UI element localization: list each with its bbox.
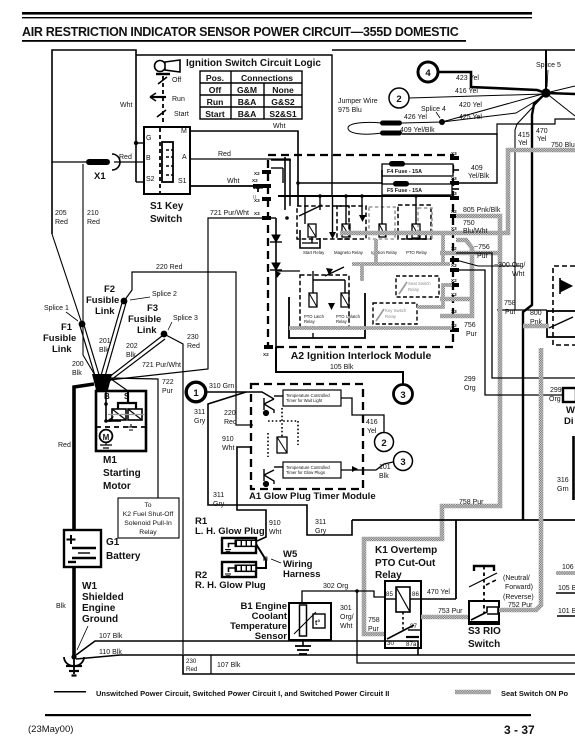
relay ignition relay xyxy=(369,207,398,255)
svg-text:Relay: Relay xyxy=(408,287,420,292)
svg-text:G&M: G&M xyxy=(237,85,257,95)
wire M Wht xyxy=(190,131,298,205)
wire Wht left frame (205 Red riser + top run) xyxy=(52,50,136,234)
svg-text:W: W xyxy=(566,405,575,416)
svg-text:Red: Red xyxy=(58,442,71,449)
wire 202 Blk (F3 link) xyxy=(104,336,165,383)
junction dots A2 xyxy=(285,181,418,220)
svg-text:3 - 37: 3 - 37 xyxy=(504,723,535,737)
timer glow plugs box xyxy=(283,462,341,478)
svg-text:Start: Start xyxy=(205,109,225,119)
svg-text:Connections: Connections xyxy=(241,73,293,83)
svg-text:Yel: Yel xyxy=(367,428,377,435)
svg-text:Key Switch: Key Switch xyxy=(385,308,407,313)
M1 solenoid coils xyxy=(106,409,145,430)
wire 200 Blk (F1 link) xyxy=(80,325,100,379)
note box to K2 relay xyxy=(118,498,179,538)
svg-text:311: 311 xyxy=(315,519,326,526)
circle 2 callout xyxy=(389,88,409,108)
svg-text:910: 910 xyxy=(269,520,281,527)
wire inner left stubs xyxy=(271,159,291,161)
svg-text:(Neutral/: (Neutral/ xyxy=(503,575,530,582)
svg-text:750: 750 xyxy=(463,220,475,227)
svg-text:Relay: Relay xyxy=(304,319,316,324)
svg-text:Pur: Pur xyxy=(466,331,478,338)
gray wire stub y299 xyxy=(440,297,472,302)
svg-text:409: 409 xyxy=(471,165,483,172)
callout circle 1 xyxy=(186,382,206,402)
svg-text:PTO Relay: PTO Relay xyxy=(406,250,428,255)
S1 inner contact carrier xyxy=(160,128,173,193)
svg-text:G&S2: G&S2 xyxy=(271,97,295,107)
svg-text:205: 205 xyxy=(55,210,67,217)
svg-text:Starting: Starting xyxy=(103,468,141,479)
svg-text:Solenoid Pull-In: Solenoid Pull-In xyxy=(124,520,172,527)
glow plug R2 xyxy=(222,562,256,577)
M1 separator dashed xyxy=(96,426,146,428)
svg-text:230: 230 xyxy=(186,658,197,665)
svg-text:425 Yel: 425 Yel xyxy=(459,114,482,121)
connector X1 xyxy=(52,154,144,182)
svg-text:2: 2 xyxy=(396,94,401,105)
B1 t box xyxy=(313,614,325,628)
svg-text:Unswitched Power Circuit, Swit: Unswitched Power Circuit, Switched Power… xyxy=(96,689,389,698)
relay PTO latch/unlatch box xyxy=(300,267,361,327)
svg-text:87a: 87a xyxy=(406,641,417,648)
svg-text:Blk: Blk xyxy=(56,603,66,610)
wire 301 Org/Wht xyxy=(357,591,575,663)
module A1 boundary xyxy=(251,384,363,489)
svg-text:Seat Switch: Seat Switch xyxy=(408,281,431,286)
svg-text:Splice 2: Splice 2 xyxy=(152,291,177,298)
svg-text:Relay: Relay xyxy=(139,529,157,536)
svg-text:Link: Link xyxy=(137,325,157,336)
wire 205 Red diagonal xyxy=(52,234,82,324)
module A2 boundary xyxy=(268,155,453,347)
relay key switch relay xyxy=(373,303,417,324)
jumper wire 975 Blu xyxy=(338,98,402,136)
gray wire 752 Pur xyxy=(499,348,541,610)
svg-text:Off: Off xyxy=(209,85,222,95)
svg-text:Engine: Engine xyxy=(82,603,116,614)
wire splice 5 riser xyxy=(545,50,547,90)
svg-text:X3: X3 xyxy=(254,198,260,203)
svg-text:Red: Red xyxy=(55,219,68,226)
svg-text:To: To xyxy=(144,502,151,509)
connector pin X2 at S1 wire xyxy=(252,178,263,199)
svg-text:Pur: Pur xyxy=(368,626,380,633)
battery cable junction blob xyxy=(92,374,112,390)
switch deck box 800 Pnk xyxy=(547,311,575,337)
wire 416 Yel to circle 2 xyxy=(341,398,384,432)
wire 426 Yel xyxy=(402,122,442,123)
node G junction xyxy=(134,141,138,145)
svg-text:K2 Fuel Shut-Off: K2 Fuel Shut-Off xyxy=(123,511,174,518)
svg-text:301: 301 xyxy=(340,605,352,612)
svg-text:200: 200 xyxy=(72,361,84,368)
wire inner 276 bus xyxy=(275,218,277,347)
ground W1 symbol xyxy=(71,654,76,659)
svg-text:230: 230 xyxy=(187,334,199,341)
svg-text:101 B: 101 B xyxy=(558,608,575,615)
gray wire 756 Pur xyxy=(440,240,472,316)
svg-text:Magneto Relay: Magneto Relay xyxy=(334,250,364,255)
svg-text:Switch: Switch xyxy=(150,214,182,225)
svg-text:416 Yel: 416 Yel xyxy=(455,88,478,95)
wire A Red xyxy=(190,159,290,205)
svg-text:Splice 4: Splice 4 xyxy=(421,106,446,113)
wire 470 Yel to K1 xyxy=(421,598,456,600)
svg-text:S1: S1 xyxy=(178,178,187,185)
wire R1-R2 link xyxy=(256,544,266,568)
svg-text:Splice 1: Splice 1 xyxy=(44,305,69,312)
svg-text:Di: Di xyxy=(564,416,574,427)
wire 416 Yel xyxy=(409,94,544,98)
wire 423 Yel xyxy=(438,72,546,93)
M1 motor symbol xyxy=(100,430,113,443)
svg-text:t°: t° xyxy=(315,619,320,627)
svg-text:Blk: Blk xyxy=(99,347,109,354)
svg-text:Org/: Org/ xyxy=(340,614,354,621)
svg-text:Forward): Forward) xyxy=(505,584,533,591)
wire 409 Yel/Blk xyxy=(402,134,497,183)
latch relay solid enclosure xyxy=(289,293,365,338)
gray wire internal ignition riser xyxy=(374,239,378,264)
svg-text:415: 415 xyxy=(518,132,530,139)
svg-text:M: M xyxy=(103,433,110,442)
svg-text:X3: X3 xyxy=(254,211,260,216)
svg-text:X2: X2 xyxy=(254,185,260,190)
gray wire internal key relay link xyxy=(417,285,452,307)
svg-text:M1: M1 xyxy=(103,455,117,466)
svg-text:311: 311 xyxy=(213,492,224,499)
svg-text:M: M xyxy=(181,128,187,135)
svg-text:Ground: Ground xyxy=(82,614,118,625)
svg-text:X3: X3 xyxy=(451,151,457,156)
relay start relay xyxy=(297,205,349,255)
svg-text:X3: X3 xyxy=(451,309,457,314)
svg-text:Switch: Switch xyxy=(468,639,500,650)
svg-text:X3: X3 xyxy=(451,226,457,231)
node blob at 278,273 xyxy=(275,271,281,278)
svg-text:Red: Red xyxy=(119,154,132,161)
seat switch module right edge (dashed) xyxy=(553,266,575,345)
switch S1 key switch box xyxy=(144,127,190,194)
svg-text:Sensor: Sensor xyxy=(255,631,288,642)
A2 right edge pins xyxy=(450,151,459,332)
svg-text:105 B: 105 B xyxy=(558,585,575,592)
svg-text:201: 201 xyxy=(99,338,111,345)
svg-text:299: 299 xyxy=(464,376,476,383)
svg-text:X1: X1 xyxy=(94,171,106,182)
footer rule xyxy=(45,714,531,716)
svg-text:220 Red: 220 Red xyxy=(156,264,183,271)
svg-text:Red: Red xyxy=(224,419,237,426)
svg-text:Run: Run xyxy=(207,97,224,107)
svg-text:Splice 5: Splice 5 xyxy=(536,62,561,69)
transistor Q2 xyxy=(263,467,283,487)
svg-text:L. H. Glow Plug: L. H. Glow Plug xyxy=(195,526,265,537)
svg-text:Blk: Blk xyxy=(72,370,82,377)
svg-text:B: B xyxy=(146,155,151,162)
svg-text:Wht: Wht xyxy=(227,178,240,185)
S3 actuator bracket xyxy=(469,566,497,614)
svg-text:AIR RESTRICTION INDICATOR SENS: AIR RESTRICTION INDICATOR SENSOR POWER C… xyxy=(22,25,459,39)
diode D2 in A2 xyxy=(270,263,282,270)
wire 470 Yel horizontal xyxy=(352,519,575,521)
svg-text:S2: S2 xyxy=(146,176,155,183)
gray wire internal y264 xyxy=(352,262,450,266)
svg-text:Blk: Blk xyxy=(379,473,389,480)
svg-text:Off: Off xyxy=(172,77,181,84)
svg-text:Yel: Yel xyxy=(518,140,528,147)
svg-text:202: 202 xyxy=(126,343,138,350)
svg-text:None: None xyxy=(272,85,294,95)
svg-text:Relay: Relay xyxy=(336,319,348,324)
svg-text:470: 470 xyxy=(536,128,548,135)
svg-text:(Reverse): (Reverse) xyxy=(503,594,534,601)
wire 220 Red xyxy=(124,272,253,425)
svg-text:756: 756 xyxy=(464,322,476,329)
wire 210 Red xyxy=(83,164,96,377)
svg-text:420 Yel: 420 Yel xyxy=(459,102,482,109)
svg-text:S2&S1: S2&S1 xyxy=(269,109,296,119)
wire 311 Gry trunk xyxy=(208,392,352,535)
svg-text:X2: X2 xyxy=(451,263,457,268)
svg-text:Wht: Wht xyxy=(120,102,133,109)
svg-text:106: 106 xyxy=(562,564,574,571)
svg-text:105 Blk: 105 Blk xyxy=(330,364,354,371)
svg-text:299: 299 xyxy=(550,387,562,394)
key switch positions Off/Run/Start xyxy=(150,74,170,122)
splice 5 xyxy=(541,88,550,97)
svg-text:800: 800 xyxy=(530,310,542,317)
wires relay feeds xyxy=(290,131,416,243)
gray wire 753 Pur xyxy=(421,615,469,620)
svg-text:758: 758 xyxy=(504,300,516,307)
svg-text:Battery: Battery xyxy=(106,551,141,562)
svg-text:X2: X2 xyxy=(263,352,269,357)
fuse F4 xyxy=(382,161,453,176)
svg-text:G1: G1 xyxy=(106,537,120,548)
wires latch feeds xyxy=(313,271,345,338)
splice 5 fan right xyxy=(546,86,575,93)
svg-text:210: 210 xyxy=(87,210,99,217)
svg-text:3: 3 xyxy=(400,457,405,468)
svg-text:721 Pur/Wht: 721 Pur/Wht xyxy=(142,362,181,369)
svg-text:X2: X2 xyxy=(254,171,260,176)
pin G wire xyxy=(136,142,144,144)
svg-text:▤: ▤ xyxy=(263,556,268,562)
svg-text:~756: ~756 xyxy=(474,244,490,251)
wire 722 Pur xyxy=(110,378,158,498)
svg-text:R. H. Glow Plug: R. H. Glow Plug xyxy=(195,580,266,591)
svg-text:3: 3 xyxy=(400,390,405,401)
relay seat switch relay xyxy=(396,276,439,297)
svg-text:Gry: Gry xyxy=(213,501,225,508)
svg-text:Run: Run xyxy=(172,96,185,103)
svg-text:X3: X3 xyxy=(451,176,457,181)
B1 thermistor xyxy=(300,605,307,636)
svg-text:B: B xyxy=(104,392,110,401)
svg-text:PTO Cut-Out: PTO Cut-Out xyxy=(375,558,436,569)
wire 299 Org second xyxy=(456,270,563,395)
sensor B1 box xyxy=(289,603,331,640)
svg-text:Start: Start xyxy=(174,111,189,118)
callout circle 3 (A2 ground) xyxy=(394,385,413,404)
svg-text:F2: F2 xyxy=(104,284,115,295)
svg-text:Red: Red xyxy=(186,666,198,673)
gray wire 750 Blu/Wht internal + external xyxy=(340,150,575,233)
wire 470 Yel trunk xyxy=(523,93,546,520)
relay PTO relay xyxy=(398,205,432,255)
svg-text:B&A: B&A xyxy=(238,109,257,119)
svg-text:975 Blu: 975 Blu xyxy=(338,107,362,114)
resistor in A1 (dotted net) xyxy=(268,408,298,457)
svg-text:Red: Red xyxy=(187,343,200,350)
svg-text:Grn: Grn xyxy=(557,486,569,493)
svg-text:Link: Link xyxy=(95,306,115,317)
relay magneto relay xyxy=(334,206,366,255)
svg-text:Fusible: Fusible xyxy=(128,314,161,325)
svg-text:Fusible: Fusible xyxy=(43,333,76,344)
M1 internal wiring xyxy=(106,391,136,421)
svg-text:910: 910 xyxy=(222,436,234,443)
svg-text:Red: Red xyxy=(218,151,231,158)
svg-text:30: 30 xyxy=(387,640,394,647)
K1 plunger dashed xyxy=(402,612,404,630)
diode D1 in A2 xyxy=(270,235,282,242)
battery cable to G1 xyxy=(74,384,94,530)
key icon xyxy=(155,60,181,72)
wire inner bus y196 xyxy=(278,195,451,197)
fusible link F1 xyxy=(79,321,86,328)
svg-text:S3 RIO: S3 RIO xyxy=(468,626,501,637)
svg-text:Blu/Wht: Blu/Wht xyxy=(463,228,488,235)
svg-text:Blk: Blk xyxy=(126,352,136,359)
svg-text:302 Org: 302 Org xyxy=(323,583,348,590)
K1 contact xyxy=(387,625,414,639)
fusible link F2 xyxy=(121,298,128,305)
svg-text:Link: Link xyxy=(52,344,72,355)
svg-text:4: 4 xyxy=(425,68,431,79)
wire blob to S pin xyxy=(111,379,128,391)
svg-text:X2: X2 xyxy=(451,246,457,251)
gray wire 800 Pnk stub xyxy=(523,324,549,329)
svg-text:X2: X2 xyxy=(451,278,457,283)
svg-text:423 Yel: 423 Yel xyxy=(456,75,479,82)
svg-text:B&A: B&A xyxy=(238,97,257,107)
fusible link F3 xyxy=(161,331,168,338)
timer wait light box xyxy=(283,390,341,406)
gray wire internal y328 xyxy=(289,326,452,330)
svg-text:Wht: Wht xyxy=(340,623,353,630)
wire 420 Yel xyxy=(442,93,546,122)
battery G1 xyxy=(64,530,141,567)
svg-text:X2: X2 xyxy=(252,178,258,183)
svg-text:721 Pur/Wht: 721 Pur/Wht xyxy=(210,210,249,217)
svg-text:A: A xyxy=(182,154,187,161)
svg-text:Ignition Switch Circuit Logic: Ignition Switch Circuit Logic xyxy=(186,58,321,69)
callout circle 3b xyxy=(394,452,413,471)
gray wire stub y253 xyxy=(440,251,498,256)
wire 107 Blk xyxy=(76,641,418,655)
svg-text:F3: F3 xyxy=(147,303,158,314)
svg-text:Harness: Harness xyxy=(283,569,321,580)
wire 201 Blk (F2 link) xyxy=(100,303,126,380)
svg-text:Relay: Relay xyxy=(375,570,402,581)
bottom wire corridor xyxy=(183,655,575,674)
svg-text:722: 722 xyxy=(162,379,174,386)
fuse F5 xyxy=(382,181,452,195)
circle 4 callout xyxy=(418,62,438,82)
pin S2 wire xyxy=(136,181,144,183)
svg-text:426 Yel: 426 Yel xyxy=(404,114,427,121)
svg-text:Relay: Relay xyxy=(385,314,397,319)
fuse feed wires xyxy=(298,182,382,184)
svg-text:416: 416 xyxy=(366,419,378,426)
gray wire 805 Pnk/Blk + 758 Pur trunk xyxy=(364,216,500,634)
svg-text:W1: W1 xyxy=(82,581,97,592)
svg-text:Fusible: Fusible xyxy=(86,295,119,306)
svg-text:Motor: Motor xyxy=(103,481,131,492)
relay K1 box xyxy=(385,581,421,648)
wire 110 Blk xyxy=(76,655,183,659)
svg-text:Wht: Wht xyxy=(512,271,525,278)
wire 721 Pur/Wht top run xyxy=(109,218,262,380)
svg-text:Pur: Pur xyxy=(505,309,517,316)
svg-text:G: G xyxy=(146,135,151,142)
svg-text:470 Yel: 470 Yel xyxy=(427,589,450,596)
wire 105 Blk xyxy=(276,347,403,384)
svg-text:Wht: Wht xyxy=(269,529,282,536)
svg-text:Pur: Pur xyxy=(162,388,174,395)
svg-text:A1 Glow Plug Timer Module: A1 Glow Plug Timer Module xyxy=(249,491,376,502)
wire 425 Yel xyxy=(442,96,544,122)
svg-text:Shielded: Shielded xyxy=(82,592,124,603)
svg-text:86: 86 xyxy=(412,591,419,598)
right-side box outline xyxy=(497,119,575,135)
svg-text:Jumper Wire: Jumper Wire xyxy=(338,98,378,105)
page header rules xyxy=(22,12,532,18)
svg-text:A2 Ignition Interlock Module: A2 Ignition Interlock Module xyxy=(291,350,432,362)
svg-text:S1 Key: S1 Key xyxy=(150,201,184,212)
A2 left edge pins xyxy=(254,170,273,357)
svg-text:Yel: Yel xyxy=(537,136,547,143)
wire S1 Wht xyxy=(190,186,258,192)
svg-text:Gry: Gry xyxy=(194,418,206,425)
wire 415 Yel xyxy=(515,93,546,310)
legend: unswitched power sample line xyxy=(54,689,389,698)
svg-text:Splice 3: Splice 3 xyxy=(173,315,198,322)
svg-text:758: 758 xyxy=(368,617,380,624)
ignition switch logic table xyxy=(200,71,302,119)
svg-text:758 Pur: 758 Pur xyxy=(459,499,484,506)
wire inner verticals top xyxy=(284,157,286,210)
svg-text:X2: X2 xyxy=(451,292,457,297)
svg-text:110 Blk: 110 Blk xyxy=(99,649,122,656)
svg-text:85: 85 xyxy=(386,591,393,598)
svg-text:Pos.: Pos. xyxy=(206,73,224,83)
motor M1 starting motor box xyxy=(96,391,146,451)
svg-text:Wht: Wht xyxy=(273,123,286,130)
svg-text:F1: F1 xyxy=(61,322,73,333)
legend: seat switch sample line xyxy=(455,689,569,698)
svg-text:316: 316 xyxy=(557,477,569,484)
switch S3 box xyxy=(469,601,499,624)
diode W2 box on 299 wire xyxy=(563,388,575,402)
svg-text:2: 2 xyxy=(381,438,386,449)
